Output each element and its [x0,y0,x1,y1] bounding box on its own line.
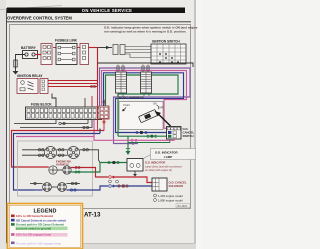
blue wire hook at grid connector [99,129,101,134]
wire relay down to fuse block [52,94,56,108]
left bus pink wire [16,136,94,138]
round connector row2 right [63,166,71,174]
row2 link wire [57,169,63,171]
right loop black wire [98,63,194,67]
svg-text:OFF: OFF [159,108,164,110]
corner code [176,204,190,208]
lamp ground [134,171,136,174]
svg-text:SOLENOID: SOLENOID [169,184,184,188]
row2 red wire to solenoid [71,168,108,178]
right loop blue wire [104,73,184,133]
svg-text:O.D. INDICATOR: O.D. INDICATOR [145,161,165,165]
svg-text:BODY HARNESS: BODY HARNESS [119,96,144,100]
red vertical from fusible link down [97,48,99,87]
connector grid right of fuse block [99,106,109,119]
red wire through grid connector [103,100,105,107]
pink wire from fuse block down [93,120,95,137]
svg-text:IGNITION RELAY: IGNITION RELAY [17,74,43,78]
pink wire below cancel switch [174,139,176,140]
svg-text:IGNITION SWITCH: IGNITION SWITCH [152,40,180,44]
header rule [6,21,191,23]
wires relay to right (red) [48,80,98,82]
legend row pink [16,233,68,237]
green vertical to ground [127,136,129,151]
wire fusible link to ignition switch (red then black) [89,47,98,49]
ignition switch table [151,44,186,64]
fusible link connector A [41,44,52,65]
svg-text:SWITCH: SWITCH [183,134,194,138]
right loop purple wire [100,68,191,144]
legend row purple [11,242,15,245]
OD cancel switch connector [167,127,182,140]
svg-text:OVERDRIVE CONTROL SYSTEM: OVERDRIVE CONTROL SYSTEM [7,16,72,21]
left bus red wire [12,131,105,168]
svg-text:1,800 engine model: 1,800 engine model [158,199,183,203]
svg-text:ON: ON [153,104,157,106]
legend row blue [11,219,15,222]
svg-text:12V+ to OD Cancel Solenoid: 12V+ to OD Cancel Solenoid [16,214,53,218]
legend row red [11,215,15,218]
row3 blue wire to solenoid [34,189,43,191]
svg-text:(or slows) with engine oil): (or slows) with engine oil) [145,169,172,172]
svg-text:Ground path for OD engaged lam: Ground path for OD engaged lamp [16,241,61,245]
svg-text:not running) as well as when i: not running) as well as when it is movin… [104,30,187,34]
stubs below body harness [118,93,149,97]
round connector row3 right [58,183,67,192]
svg-text:(console switch to ground): (console switch to ground) [16,226,51,230]
scan page top edge [0,6,62,10]
page bottom edge shadow [6,244,196,249]
harness outline box [18,141,93,196]
legend row green [11,223,15,226]
wire fuse block bottom black [14,120,56,124]
right loop green wire [106,75,179,136]
round connector row1 right [68,147,80,159]
green wire below cancel switch [128,139,170,143]
ignition relay [17,79,38,94]
battery [23,51,38,59]
row2 green wire [71,163,100,173]
diagram frame [10,25,191,209]
right loop pink wire [102,71,187,129]
wire fusible link A-B and B-C (red) [53,47,56,49]
svg-text:B4-1503: B4-1503 [178,205,188,208]
page background [0,0,202,249]
body harness connector 1 [116,72,127,93]
left bus blue wire [14,134,101,191]
fusible link inline fuse [14,60,17,67]
fusible link fuse box B [56,44,77,65]
svg-text:FUSE BLOCK: FUSE BLOCK [31,103,52,107]
bottom dark band [7,240,83,246]
page left edge [0,0,6,249]
svg-text:Ground path for OD Cancel Sole: Ground path for OD Cancel Solenoid [16,223,64,227]
ignition relay connector [40,79,48,94]
OD indicator lamp labels [143,154,153,159]
wires into body harness tops [118,65,148,73]
footnote engine models [154,194,157,197]
round connector row3 left [43,183,52,192]
inline connector on blue wire [136,131,138,133]
page right edge [196,0,202,249]
svg-text:Front: Front [124,103,131,107]
svg-text:1,245 engine model: 1,245 engine model [158,194,183,198]
console switch isometric [138,109,157,122]
wires into fuse block top [84,98,86,107]
header black bar [7,8,185,14]
ignition switch connector [113,45,118,55]
svg-text:BATTERY: BATTERY [21,46,37,50]
fuse block [26,107,102,120]
svg-text:OD Cancel Solenoid to console: OD Cancel Solenoid to console switch [16,218,66,222]
blue wire to solenoid with connectors [109,185,112,188]
body harness connector 2 [141,72,152,93]
inline connector on purple wire [132,142,134,144]
fusible link connector C [80,44,89,65]
svg-text:12V+ for OD engaged lamp: 12V+ for OD engaged lamp [16,233,51,237]
svg-text:FUSIBLE LINK: FUSIBLE LINK [55,39,78,43]
round connector row2 left [49,166,57,174]
red wire to solenoid with connectors [109,176,112,179]
OD indicator lamp box [127,159,143,172]
round connector row1 left [45,147,57,159]
row3 black wire [30,183,43,185]
svg-text:LEGEND: LEGEND [33,209,56,215]
circled engine-model markers [109,180,112,183]
inset box console switch [119,102,163,130]
row3 link wire [51,186,57,188]
wire battery to fusible link (red) [35,54,42,56]
svg-text:LAMP: LAMP [164,155,172,159]
row1 wires [22,149,45,151]
svg-text:ON VEHICLE SERVICE: ON VEHICLE SERVICE [82,8,132,13]
wire battery left to ground [16,55,26,61]
green wire inset to switch [118,135,167,137]
ground [15,67,17,71]
pink wire middle with connector [94,137,175,141]
legend box [8,204,83,249]
OD cancel solenoid [152,178,167,191]
svg-text:AT-13: AT-13 [84,212,101,219]
svg-text:Lamp (dims) (and with no press: Lamp (dims) (and with no pressure [145,165,183,168]
green wire to OD indicator lamp [100,162,127,164]
